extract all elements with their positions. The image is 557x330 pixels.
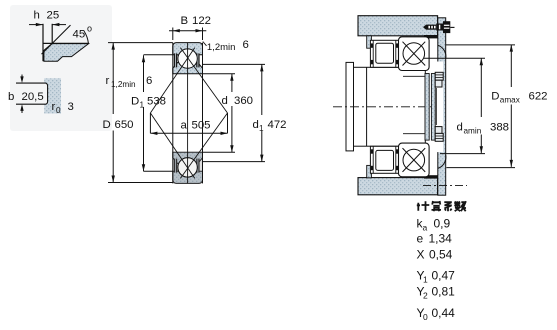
shaft collar xyxy=(346,62,354,150)
pin lower xyxy=(435,127,442,134)
leader 1,2min right xyxy=(203,42,207,46)
d ext bottom xyxy=(203,151,236,153)
dimension a risers xyxy=(149,113,151,133)
svg-text:650: 650 xyxy=(115,119,134,131)
char shu xyxy=(454,201,466,211)
char xi xyxy=(444,202,452,211)
dimension Damax line xyxy=(510,45,512,87)
arrow b top xyxy=(21,75,23,80)
d1 ext top xyxy=(203,63,266,65)
svg-text:1: 1 xyxy=(259,124,264,133)
svg-text:D: D xyxy=(131,96,139,108)
roller flange bars xyxy=(372,40,374,67)
svg-text:r: r xyxy=(52,101,56,113)
svg-text:1,2min: 1,2min xyxy=(111,80,136,89)
svg-text:25: 25 xyxy=(47,10,60,22)
slot profile line top xyxy=(16,83,48,104)
shaft step line upper xyxy=(403,75,428,77)
d1 ext bottom xyxy=(203,161,266,163)
lower section (mirror) xyxy=(173,152,203,183)
title (CJK drawn as strokes) xyxy=(417,201,466,211)
housing lip bottom xyxy=(367,165,372,177)
bolt nut xyxy=(443,21,450,33)
45 deg line xyxy=(42,25,71,54)
svg-text:472: 472 xyxy=(268,119,287,131)
face top line xyxy=(43,42,89,44)
svg-text:a: a xyxy=(181,120,188,132)
damin ext bottom xyxy=(440,153,485,155)
Damax ext top xyxy=(446,44,515,46)
dimension d1 line xyxy=(261,64,263,115)
bolt stub xyxy=(450,26,454,28)
svg-text:388: 388 xyxy=(490,122,509,134)
pin upper xyxy=(435,72,443,80)
extension line vertical 1 xyxy=(42,24,44,61)
cover plate xyxy=(438,18,446,195)
contact diamond edge LL xyxy=(150,113,194,178)
contact diamond edge UR xyxy=(180,48,227,113)
axis centre line xyxy=(333,106,438,108)
contact diamond edge UL xyxy=(150,48,194,113)
svg-text:1: 1 xyxy=(423,275,428,285)
bearing centre line xyxy=(187,43,189,184)
svg-text:0: 0 xyxy=(423,312,428,322)
side land left xyxy=(174,53,177,67)
svg-text:1,2min: 1,2min xyxy=(207,42,236,53)
svg-text:45: 45 xyxy=(73,29,86,41)
svg-text:d: d xyxy=(457,122,463,134)
dimension B line xyxy=(169,30,206,32)
ball lower redraw xyxy=(178,158,197,177)
bearing face line right xyxy=(202,43,204,184)
D1 ext bottom xyxy=(144,170,173,172)
ball upper xyxy=(178,49,197,68)
lower section shading xyxy=(173,152,203,184)
Damax ext bottom xyxy=(446,167,515,169)
svg-text:360: 360 xyxy=(234,95,253,107)
svg-text:B: B xyxy=(181,15,189,27)
chamfer cross-section blue body xyxy=(44,44,89,62)
svg-text:amax: amax xyxy=(500,96,520,105)
svg-text:e: e xyxy=(417,232,424,246)
svg-text:0,47: 0,47 xyxy=(432,269,456,283)
QJ contact X xyxy=(403,42,426,66)
bolt tip xyxy=(423,25,426,30)
inner ring upper xyxy=(173,62,203,73)
svg-text:3: 3 xyxy=(68,101,74,113)
dimension a line xyxy=(150,132,227,134)
arrow b bottom xyxy=(21,109,23,114)
dimension d line xyxy=(231,74,233,92)
svg-text:r: r xyxy=(106,75,110,87)
cover plate recess (white) xyxy=(435,62,443,153)
shaft step line lower xyxy=(403,133,428,135)
45 deg arc xyxy=(84,31,88,43)
housing bottom xyxy=(358,178,438,195)
housing lip top xyxy=(367,36,372,48)
dimension D1 line xyxy=(143,55,145,92)
QJ ball xyxy=(403,43,425,65)
svg-text:b: b xyxy=(8,91,14,103)
svg-text:a: a xyxy=(423,223,428,233)
D ext bottom xyxy=(108,182,173,184)
cover plate fillet bottom xyxy=(438,155,446,169)
faint panel behind small details xyxy=(10,5,112,131)
svg-text:h: h xyxy=(34,10,40,22)
bolt thread body xyxy=(426,25,436,30)
svg-text:622: 622 xyxy=(529,91,548,103)
side land right xyxy=(196,53,199,67)
slot blue body xyxy=(44,78,61,113)
roller xyxy=(376,43,394,63)
gap band bottom xyxy=(424,175,438,178)
dimension damin line xyxy=(480,58,482,117)
dimension D line xyxy=(112,43,114,114)
svg-text:1: 1 xyxy=(140,101,145,110)
svg-text:d: d xyxy=(222,95,228,107)
shaft xyxy=(346,67,425,146)
D ext top xyxy=(108,42,173,44)
char ji xyxy=(417,201,430,211)
cover plate fillet top xyxy=(438,45,446,59)
svg-text:2: 2 xyxy=(423,291,428,301)
svg-text:0: 0 xyxy=(56,106,61,115)
svg-text:X: X xyxy=(417,248,425,262)
svg-text:6: 6 xyxy=(146,75,152,87)
gap band top xyxy=(424,35,438,38)
shaft end face xyxy=(435,88,437,125)
D1 ext top xyxy=(144,54,173,56)
washer strip B xyxy=(431,74,435,141)
svg-text:D: D xyxy=(103,119,111,131)
contact diamond edge LR xyxy=(180,113,227,178)
outer ring upper xyxy=(173,43,203,60)
spacer sleeve face xyxy=(366,67,368,146)
svg-text:0,81: 0,81 xyxy=(432,285,456,299)
svg-text:o: o xyxy=(87,24,92,34)
svg-text:1,34: 1,34 xyxy=(429,232,453,246)
svg-text:20,5: 20,5 xyxy=(22,91,44,103)
svg-text:6: 6 xyxy=(243,39,249,51)
roller bearing outline xyxy=(370,40,398,67)
QJ cartridge xyxy=(399,37,430,71)
dimension h arrows xyxy=(29,24,66,26)
svg-text:d: d xyxy=(253,119,259,131)
d ext top xyxy=(203,73,236,75)
svg-text:505: 505 xyxy=(192,120,211,132)
bearing face line left xyxy=(172,43,174,184)
svg-text:0,9: 0,9 xyxy=(434,217,451,231)
damin ext top xyxy=(424,57,485,59)
svg-text:amin: amin xyxy=(464,127,482,136)
washer strip A xyxy=(425,74,429,141)
svg-text:D: D xyxy=(491,91,499,103)
extension line vertical 2 xyxy=(51,24,53,44)
housing top xyxy=(358,16,438,36)
svg-text:122: 122 xyxy=(192,15,211,27)
svg-text:0,44: 0,44 xyxy=(432,306,456,320)
lower bolt centre line xyxy=(423,184,467,186)
bolt collar xyxy=(436,24,443,31)
char suan xyxy=(432,201,442,211)
svg-text:538: 538 xyxy=(147,96,166,108)
svg-text:0,54: 0,54 xyxy=(429,248,453,262)
dimension B ext lines xyxy=(172,28,174,41)
